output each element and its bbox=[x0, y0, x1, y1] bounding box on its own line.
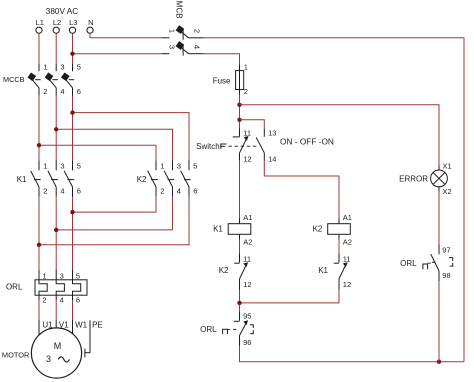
wire K1 NC 12 to common node bbox=[240, 290, 340, 303]
svg-text:96: 96 bbox=[243, 338, 251, 347]
svg-text:95: 95 bbox=[243, 312, 251, 321]
node junction switch feed bbox=[237, 118, 241, 122]
wire feed to switch contact 13 bbox=[240, 120, 265, 129]
contactor coil K1 bbox=[239, 218, 241, 224]
node junction K2-out-L2 bbox=[54, 228, 58, 232]
wire N to MCB pole 1 bbox=[90, 33, 162, 37]
svg-text:L1: L1 bbox=[36, 18, 44, 27]
svg-text:2: 2 bbox=[193, 29, 202, 33]
circuit breaker MCCB pole 5-6 bbox=[72, 64, 74, 72]
contactor K2 pole 1-2 bbox=[155, 160, 157, 170]
wire L1 vertical rail bbox=[38, 33, 40, 63]
svg-text:K2: K2 bbox=[137, 175, 147, 184]
svg-text:W1: W1 bbox=[75, 320, 88, 329]
svg-text:K2: K2 bbox=[219, 266, 229, 275]
wire L3 tap to MCB pole 3 bbox=[73, 53, 162, 55]
svg-text:A1: A1 bbox=[243, 213, 252, 222]
svg-text:12: 12 bbox=[243, 155, 251, 164]
overload relay ORL 95-96 trip symbol bbox=[250, 325, 253, 334]
wire switch 12 to K1 coil A1 bbox=[239, 161, 241, 218]
svg-text:11: 11 bbox=[243, 254, 251, 263]
interlock NC contact K1 11-12 bbox=[338, 253, 340, 262]
node junction L3-K2 bbox=[70, 110, 74, 114]
motor leads U1 V1 W1 bbox=[38, 319, 40, 335]
svg-text:1: 1 bbox=[167, 29, 176, 33]
svg-text:5: 5 bbox=[76, 271, 80, 280]
wire L2 vertical rail bbox=[55, 33, 57, 63]
motor M1 3-phase bbox=[31, 328, 81, 378]
svg-text:A2: A2 bbox=[243, 238, 252, 247]
contactor K1 pole 3-4 bbox=[55, 160, 57, 170]
node junction L1-K2 bbox=[37, 143, 41, 147]
svg-text:X1: X1 bbox=[443, 162, 452, 171]
svg-text:K1: K1 bbox=[213, 225, 223, 234]
wire ORL 98 to bottom rail bbox=[438, 281, 440, 362]
circuit breaker MCCB pole 1-2 bbox=[38, 64, 40, 72]
svg-text:A2: A2 bbox=[343, 238, 352, 247]
svg-text:11: 11 bbox=[343, 254, 351, 263]
svg-text:X2: X2 bbox=[443, 187, 452, 196]
selector switch contact 11-12 bbox=[239, 129, 241, 137]
svg-text:A1: A1 bbox=[343, 213, 352, 222]
wire K2 NC 12 to node bbox=[239, 290, 241, 312]
svg-text:1: 1 bbox=[42, 271, 46, 280]
node junction L2-K2 bbox=[54, 127, 58, 131]
wire K2 coil A2 to K1 NC contact bbox=[338, 240, 340, 254]
svg-text:1: 1 bbox=[244, 62, 248, 71]
wire L1 tap to K2 pole 1 bbox=[39, 145, 156, 160]
circuit breaker MCB pole 3-4 bbox=[162, 53, 170, 55]
svg-text:2: 2 bbox=[43, 87, 47, 96]
overload relay ORL contact 97-98 bbox=[438, 244, 440, 254]
svg-text:4: 4 bbox=[60, 296, 64, 305]
contactor K1 pole 1-2 bbox=[38, 160, 40, 170]
contactor coil K2 bbox=[338, 218, 340, 224]
svg-text:M: M bbox=[54, 341, 62, 351]
svg-text:K1: K1 bbox=[318, 266, 328, 275]
svg-text:2: 2 bbox=[244, 87, 248, 96]
contactor K1 pole 5-6 bbox=[72, 160, 74, 170]
svg-text:13: 13 bbox=[268, 128, 276, 137]
svg-text:4: 4 bbox=[193, 45, 202, 49]
svg-text:6: 6 bbox=[193, 187, 197, 196]
node junction L3-MCB bbox=[70, 52, 74, 56]
contactor K2 pole 3-4 bbox=[172, 160, 174, 170]
svg-text:12: 12 bbox=[343, 280, 351, 289]
svg-text:N: N bbox=[88, 18, 93, 27]
svg-text:4: 4 bbox=[177, 187, 181, 196]
wire fuse output stem bbox=[239, 95, 241, 129]
svg-text:6: 6 bbox=[76, 296, 80, 305]
svg-text:6: 6 bbox=[77, 87, 81, 96]
svg-text:PE: PE bbox=[92, 320, 103, 329]
overload relay ORL heater pole 1-2 bbox=[39, 270, 47, 300]
svg-text:Switch: Switch bbox=[196, 142, 220, 151]
wire L3 vertical rail bbox=[72, 33, 74, 63]
svg-text:4: 4 bbox=[60, 187, 64, 196]
node junction K2-out-L3 bbox=[70, 210, 74, 214]
node junction lamp-bottom rail bbox=[437, 360, 441, 364]
svg-text:3: 3 bbox=[46, 354, 51, 364]
svg-text:ORL: ORL bbox=[6, 282, 23, 291]
svg-text:5: 5 bbox=[193, 162, 197, 171]
svg-text:2: 2 bbox=[43, 187, 47, 196]
fuse F1 bbox=[239, 65, 241, 95]
interlock NC contact K2 11-12 bbox=[239, 253, 241, 262]
wire ERROR lamp X2 to ORL 97 bbox=[438, 192, 440, 245]
wire L2 tap to K2 pole 3 bbox=[56, 129, 172, 160]
svg-text:5: 5 bbox=[77, 63, 81, 72]
svg-text:2: 2 bbox=[160, 187, 164, 196]
svg-text:380V AC: 380V AC bbox=[46, 7, 78, 16]
svg-text:3: 3 bbox=[177, 162, 181, 171]
svg-text:3: 3 bbox=[167, 45, 176, 49]
svg-text:3: 3 bbox=[60, 162, 64, 171]
svg-text:12: 12 bbox=[243, 280, 251, 289]
svg-text:11: 11 bbox=[243, 128, 251, 137]
svg-text:Fuse: Fuse bbox=[213, 77, 231, 86]
indicator lamp ERROR X1-X2 bbox=[438, 165, 440, 170]
svg-text:K2: K2 bbox=[313, 225, 323, 234]
wire MCB pole 1 output to right rail N bbox=[204, 38, 465, 362]
wire switch 14 to K2 coil A1 bbox=[264, 161, 339, 218]
overload relay ORL heater pole 3-4 bbox=[56, 270, 64, 300]
svg-text:1: 1 bbox=[43, 162, 47, 171]
wire K2 pole 6 output crossover to L1 rail bbox=[39, 197, 189, 245]
svg-text:14: 14 bbox=[268, 155, 276, 164]
svg-text:5: 5 bbox=[77, 162, 81, 171]
node junction coil branches bbox=[237, 301, 241, 305]
svg-text:3: 3 bbox=[60, 271, 64, 280]
svg-text:MOTOR: MOTOR bbox=[2, 350, 29, 359]
overload relay ORL heater block bbox=[35, 280, 87, 295]
overload relay ORL 97-98 trip symbol bbox=[449, 258, 453, 267]
svg-text:L3: L3 bbox=[69, 18, 77, 27]
wire lamp feed to ERROR branch bbox=[240, 105, 440, 165]
selector switch linkage dashed line bbox=[229, 145, 259, 147]
contactor K2 pole 5-6 bbox=[188, 160, 190, 170]
overload relay ORL contact 95-96 bbox=[239, 311, 241, 321]
svg-text:ORL: ORL bbox=[200, 325, 217, 334]
wire MCB pole 3 output to fuse bbox=[204, 54, 240, 65]
svg-text:6: 6 bbox=[77, 187, 81, 196]
svg-text:MCCB: MCCB bbox=[3, 75, 25, 84]
wire K2 pole 4 output to L2 rail bbox=[56, 197, 172, 230]
svg-text:2: 2 bbox=[42, 296, 46, 305]
svg-text:K1: K1 bbox=[17, 175, 27, 184]
node junction K2-out-L1 bbox=[37, 243, 41, 247]
overload relay ORL heater pole 5-6 bbox=[73, 270, 81, 300]
svg-text:4: 4 bbox=[60, 87, 64, 96]
wire K1 coil A2 to K2 NC contact bbox=[239, 240, 241, 254]
svg-text:MCB: MCB bbox=[175, 1, 184, 19]
circuit breaker MCCB pole 3-4 bbox=[55, 64, 57, 72]
svg-text:1: 1 bbox=[43, 63, 47, 72]
svg-text:ERROR: ERROR bbox=[399, 175, 428, 184]
svg-text:ON - OFF -ON: ON - OFF -ON bbox=[280, 136, 334, 146]
svg-text:ORL: ORL bbox=[400, 259, 417, 268]
circuit breaker MCB pole 1-2 bbox=[162, 37, 170, 39]
wire K2 pole 2 output crossover to L3 rail bbox=[73, 197, 157, 212]
wire L3 tap to K2 pole 5 bbox=[73, 113, 190, 161]
svg-text:97: 97 bbox=[442, 245, 450, 254]
svg-text:3: 3 bbox=[60, 63, 64, 72]
svg-text:98: 98 bbox=[442, 271, 450, 280]
svg-text:1: 1 bbox=[160, 162, 164, 171]
wire ORL 96 to bottom rail bbox=[240, 346, 465, 362]
node junction fuse-lamp feed bbox=[237, 103, 241, 107]
selector switch contact 13-14 bbox=[263, 129, 265, 137]
svg-text:L2: L2 bbox=[53, 18, 61, 27]
